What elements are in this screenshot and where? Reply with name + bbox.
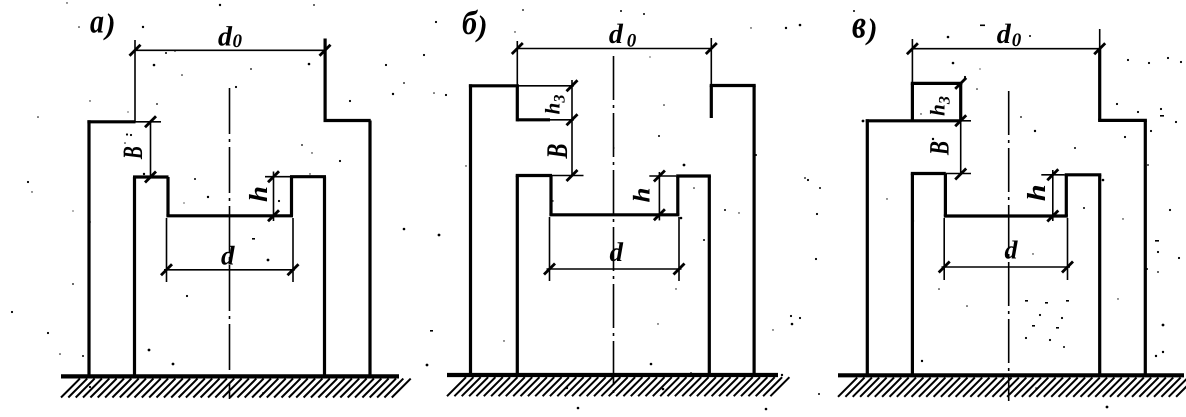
dimension line d0 (fig a) xyxy=(135,49,325,51)
trough floor (fig b) xyxy=(549,213,679,216)
outer left wall (fig b) xyxy=(469,84,472,376)
d0 left extension line (fig a) xyxy=(134,40,136,122)
recess bottom (fig b) xyxy=(517,118,550,121)
outer left wall (fig v) xyxy=(866,119,869,376)
dimension line B (fig a) xyxy=(150,122,152,177)
d0 right extension (fig b) xyxy=(710,38,712,86)
cavity left wall (fig b) xyxy=(516,176,519,377)
raised edge extension above (fig v) xyxy=(1099,29,1101,49)
dimension line d (fig v) xyxy=(942,266,1071,268)
svg-text:а: а xyxy=(90,4,104,41)
dimension line d0 (fig b) xyxy=(517,48,711,50)
svg-text:d: d xyxy=(218,21,233,52)
svg-text:В: В xyxy=(541,144,574,160)
dimension line h (fig b) xyxy=(658,172,660,220)
svg-text:d: d xyxy=(610,237,624,267)
trough floor (fig v) xyxy=(944,214,1068,217)
left shoulder top (fig v) xyxy=(866,119,961,122)
trough right wall (fig a) xyxy=(290,177,293,216)
outer right wall (fig b) xyxy=(752,86,755,377)
svg-text:d: d xyxy=(1005,236,1019,265)
left ledge top (fig v) xyxy=(911,172,946,175)
trough right wall (fig b) xyxy=(676,176,679,215)
svg-text:h: h xyxy=(1022,184,1051,201)
svg-text:В: В xyxy=(925,141,956,156)
cavity left wall (fig v) xyxy=(911,174,914,377)
recess left wall (fig b) xyxy=(516,86,519,122)
raised column edge right (fig a) xyxy=(324,39,327,121)
ground line (fig b) xyxy=(447,373,778,377)
dimension line d (fig b) xyxy=(547,268,682,270)
trough left wall (fig b) xyxy=(549,176,552,215)
ground hatching (fig b) xyxy=(447,377,789,396)
dimension line d0 (fig v) xyxy=(912,48,1099,50)
trough floor (fig a) xyxy=(166,214,293,217)
cavity right wall (fig v) xyxy=(1098,175,1101,376)
left ledge top (fig b) xyxy=(516,174,552,177)
svg-text:d: d xyxy=(221,241,235,271)
right ledge top (fig a) xyxy=(290,175,326,178)
dimension line B (fig v) xyxy=(960,121,962,174)
vertical centerline (fig a) xyxy=(229,88,231,399)
shoulder extension (fig v) xyxy=(961,120,971,122)
right shoulder top (fig v) xyxy=(1098,119,1147,122)
trough right wall (fig v) xyxy=(1065,175,1068,216)
d left extension (fig v) xyxy=(943,218,945,280)
ground line (fig v) xyxy=(838,373,1184,377)
left ledge top (fig a) xyxy=(133,175,169,178)
trough left wall (fig a) xyxy=(166,177,169,216)
svg-text:d: d xyxy=(997,19,1012,50)
right ledge top (fig b) xyxy=(676,174,711,177)
boss right edge (fig v) xyxy=(959,83,962,120)
top surface right (fig b) xyxy=(710,84,756,87)
raised column edge right (fig v) xyxy=(1098,49,1101,121)
left shoulder top (fig a) xyxy=(87,120,135,123)
h top extension (fig a) xyxy=(265,176,290,178)
d0 left extension (fig b) xyxy=(516,41,518,86)
svg-text:в: в xyxy=(852,1,866,46)
svg-text:h: h xyxy=(630,188,656,203)
h top extension (fig b) xyxy=(649,175,676,177)
cavity left wall (fig a) xyxy=(133,177,136,377)
top surface left (fig b) xyxy=(469,84,519,87)
svg-text:б: б xyxy=(462,5,479,42)
surface extension over recess (fig b) xyxy=(517,85,574,87)
d right extension (fig v) xyxy=(1067,218,1069,280)
boss top (fig v) xyxy=(911,82,963,85)
svg-text:0: 0 xyxy=(627,31,637,52)
svg-text:h: h xyxy=(244,186,273,202)
outer left wall (fig a) xyxy=(87,120,90,377)
ledge extension for B (fig v) xyxy=(946,173,971,175)
vertical centerline (fig v) xyxy=(1008,91,1010,401)
d left extension (fig b) xyxy=(549,217,551,281)
dimension line d (fig a) xyxy=(164,269,295,271)
svg-text:d: d xyxy=(609,19,624,50)
ledge extension for B (fig b) xyxy=(552,175,584,177)
boss left edge (fig v) xyxy=(911,83,914,120)
recess bottom extension (fig b) xyxy=(550,119,574,121)
right ledge top (fig v) xyxy=(1065,173,1102,176)
ground line (fig a) xyxy=(61,374,399,378)
outer right wall (fig v) xyxy=(1144,120,1147,376)
shoulder extension for B (fig a) xyxy=(136,121,162,123)
d right extension (fig b) xyxy=(678,217,680,281)
svg-text:0: 0 xyxy=(233,31,243,52)
dimension line h (fig v) xyxy=(1052,170,1054,221)
dimension line h3 and B (fig b) xyxy=(571,80,573,176)
svg-text:В: В xyxy=(118,146,149,160)
d0 left extension (fig v) xyxy=(911,39,913,83)
dimension line h (fig a) xyxy=(273,172,275,222)
h top extension (fig v) xyxy=(1041,174,1064,176)
d right extension (fig a) xyxy=(292,218,294,282)
ground hatching (fig a) xyxy=(61,379,411,398)
ground hatching (fig v) xyxy=(838,378,1186,397)
vertical centerline (fig b) xyxy=(613,56,615,398)
outer right wall (fig a) xyxy=(368,121,371,378)
svg-text:0: 0 xyxy=(1012,30,1022,51)
right shoulder top (fig a) xyxy=(324,119,371,122)
cavity right wall (fig b) xyxy=(708,176,711,376)
cavity right wall (fig a) xyxy=(323,177,326,377)
trough left wall (fig v) xyxy=(944,174,947,217)
d left extension (fig a) xyxy=(166,218,168,282)
recess right wall stub (fig b) xyxy=(710,86,713,119)
